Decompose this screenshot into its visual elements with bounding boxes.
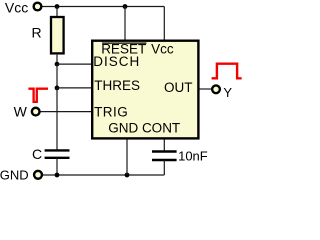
wire top rail Vcc: [42, 6, 164, 8]
wire CONT pin: [163, 140, 165, 151]
wire DISCH pin: [57, 63, 92, 65]
terminal W: [32, 108, 40, 116]
svg-text:10nF: 10nF: [178, 149, 208, 164]
junction at R top: [55, 4, 60, 9]
svg-text:Vcc: Vcc: [5, 0, 28, 16]
output waveform (red pulse): [212, 64, 242, 79]
wire C bottom: [56, 158, 58, 175]
terminal Y: [212, 85, 220, 93]
terminal GND: [34, 171, 42, 179]
svg-text:THRES: THRES: [94, 78, 140, 93]
wire RESET pin: [124, 7, 126, 41]
svg-text:Vcc: Vcc: [151, 41, 174, 56]
wire OUT pin: [200, 88, 213, 90]
junction GND pin: [125, 173, 130, 178]
wire ground rail: [43, 174, 164, 176]
resistor R: [51, 17, 64, 53]
junction THRES node: [55, 86, 60, 91]
wire THRES to capacitor C: [56, 88, 58, 150]
IC U1 555-timer body: [92, 41, 198, 139]
svg-text:R: R: [32, 25, 42, 41]
wire 10nF to ground rail: [163, 160, 165, 175]
svg-text:W: W: [14, 104, 28, 120]
input waveform (red pulse): [28, 89, 48, 102]
wire R bottom: [56, 55, 58, 64]
wire Vcc pin: [163, 7, 165, 41]
junction DISCH node: [55, 62, 60, 67]
svg-text:GND CONT: GND CONT: [108, 120, 180, 135]
svg-text:OUT: OUT: [164, 80, 193, 95]
capacitor 10nF bottom plate: [152, 159, 177, 161]
svg-text:DISCH: DISCH: [93, 54, 140, 69]
wire THRES pin: [57, 87, 92, 89]
wire TRIG pin: [41, 111, 93, 113]
junction C to ground rail: [55, 173, 60, 178]
svg-text:GND: GND: [0, 167, 29, 182]
wire Vcc rail to resistor: [56, 7, 58, 17]
terminal Vcc: [34, 3, 42, 11]
capacitor C top plate: [45, 149, 70, 151]
wire DISCH to THRES: [56, 64, 58, 88]
pin label RESET overbar: [102, 42, 147, 44]
wire GND pin: [126, 140, 128, 176]
junction at RESET pin: [123, 4, 128, 9]
svg-text:TRIG: TRIG: [94, 104, 128, 119]
capacitor 10nF top plate: [152, 150, 177, 152]
capacitor C bottom plate: [45, 157, 70, 159]
svg-text:C: C: [32, 146, 42, 162]
svg-text:Y: Y: [223, 85, 232, 100]
